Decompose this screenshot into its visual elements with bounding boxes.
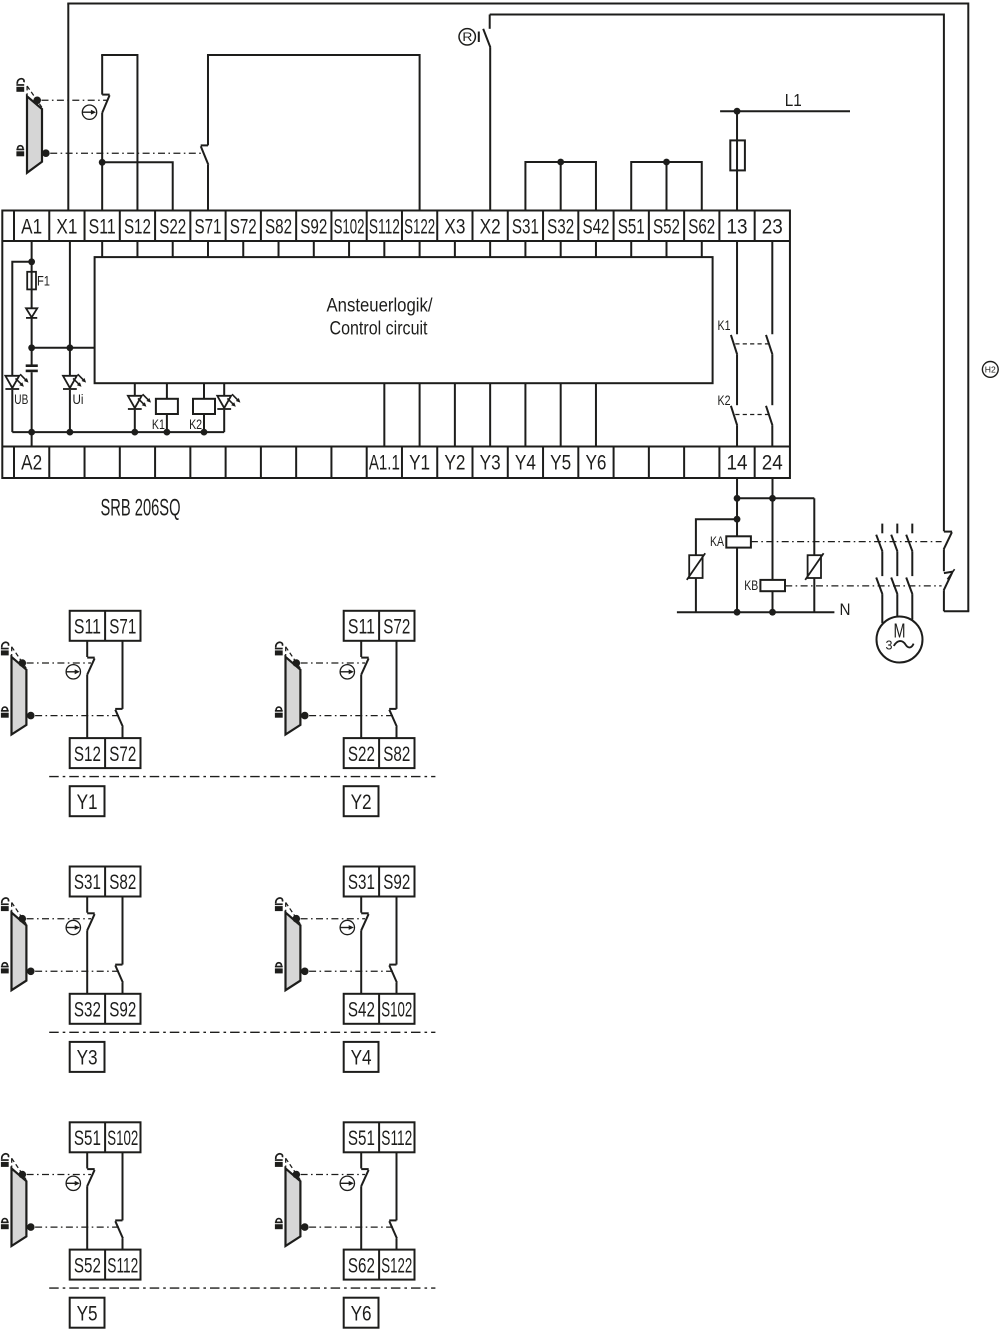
svg-text:S102: S102 xyxy=(381,999,412,1022)
Y4 padlock open icon xyxy=(275,898,283,911)
svg-text:S92: S92 xyxy=(300,216,327,239)
Y5 wire to S52 xyxy=(86,1186,88,1249)
Y2 sensor terminal box S22/S82 xyxy=(344,738,415,768)
svg-text:S31: S31 xyxy=(348,871,375,894)
Y2 label box xyxy=(344,786,379,816)
Y3 wire to S92 xyxy=(122,983,124,994)
node line A1-X1-control xyxy=(28,344,94,351)
Y3 actuator symbol xyxy=(66,920,80,934)
svg-text:24: 24 xyxy=(762,452,783,475)
Y4 actuator symbol xyxy=(340,920,354,934)
Y5 actuator symbol xyxy=(66,1176,80,1190)
door actuator dot B xyxy=(42,149,50,157)
svg-text:14: 14 xyxy=(727,452,748,475)
svg-text:X3: X3 xyxy=(444,216,465,239)
Y5 guard door panel xyxy=(12,1168,27,1246)
wire top rail xyxy=(67,3,968,5)
wire 24 down xyxy=(772,478,774,580)
Y6 padlock open icon xyxy=(275,1154,283,1167)
label K1 (coil) xyxy=(152,417,165,432)
Y1 wire to S72 xyxy=(122,727,124,738)
Y1 label box xyxy=(70,786,105,816)
Y4 guard door open position (dashed) xyxy=(286,903,301,924)
Y2 door actuator dot B xyxy=(301,712,309,720)
relay coil K1 xyxy=(156,383,178,432)
wire diode to node xyxy=(31,318,33,348)
junction L1 xyxy=(734,108,741,115)
svg-text:Y6: Y6 xyxy=(585,452,606,475)
wire rail to A2 xyxy=(31,432,33,446)
Y5 padlock closed icon xyxy=(1,1219,9,1230)
control circuit box xyxy=(95,257,713,383)
Y6 wire to S122 xyxy=(396,1238,398,1249)
Y1 guard door open position (dashed) xyxy=(12,647,27,668)
reset NO contact lever xyxy=(483,29,490,48)
contactor coil KB xyxy=(760,580,785,612)
contact K2 (23-24) xyxy=(766,406,773,426)
svg-text:X2: X2 xyxy=(480,216,501,239)
contact S11 (door NC) xyxy=(102,95,110,113)
branch varistor right xyxy=(813,498,815,555)
reset button R circle xyxy=(459,29,475,45)
contact K2 (13-14) xyxy=(731,406,737,426)
svg-text:KB: KB xyxy=(744,578,758,593)
svg-text:S72: S72 xyxy=(230,216,257,239)
LED Ui xyxy=(63,348,86,432)
LED UB xyxy=(5,374,28,432)
svg-text:S31: S31 xyxy=(74,871,101,894)
label UB xyxy=(14,392,28,407)
Y5 door actuator dot A xyxy=(19,1171,27,1179)
Y5 contact left (NC) xyxy=(87,1169,95,1186)
svg-text:SRB 206SQ: SRB 206SQ xyxy=(101,495,181,522)
svg-text:UB: UB xyxy=(14,392,28,407)
label N xyxy=(840,601,851,619)
lamp H2 xyxy=(982,362,998,378)
junction S11/S22 xyxy=(99,159,106,166)
wires to motor xyxy=(882,594,912,623)
svg-text:S12: S12 xyxy=(124,216,151,239)
wire between feedback contacts xyxy=(943,549,945,571)
Y5 label box xyxy=(70,1298,105,1328)
terminal labels bottom row (A2 A1.1 Y1-Y6 14 24) xyxy=(21,452,783,475)
Y4 wire to S102 xyxy=(396,983,398,994)
svg-text:S11: S11 xyxy=(348,616,375,639)
svg-text:R: R xyxy=(462,32,472,44)
Y6 contact right (NC) xyxy=(389,1220,397,1238)
stubs control circuit to terminals A1.1,Y1-Y6 xyxy=(384,383,596,446)
Y5 guard door open position (dashed) xyxy=(12,1158,27,1179)
wire X1 riser to top rail xyxy=(67,4,69,211)
wire between contacts 13 xyxy=(736,355,738,406)
Y1 door actuator dot A xyxy=(19,659,27,667)
rail junction dots xyxy=(28,429,207,436)
terminal strip top cells xyxy=(2,211,790,242)
row separator below Y1 xyxy=(49,776,435,778)
label K1 (contacts) xyxy=(718,318,731,333)
Y3 wire S31 down xyxy=(86,897,88,913)
wire X1 down xyxy=(69,241,71,348)
svg-text:S32: S32 xyxy=(74,999,101,1022)
row separator below Y5 xyxy=(49,1287,435,1289)
contactor coil KA xyxy=(726,536,751,612)
Y6 wire S51 down xyxy=(360,1152,362,1168)
node L1 rail xyxy=(720,110,850,112)
Y2 wire S72 down xyxy=(396,641,398,709)
Y4 wire to S42 xyxy=(360,930,362,993)
Y4 door actuator dot B xyxy=(301,968,309,976)
Y5 wire S51 down xyxy=(86,1152,88,1168)
wire feedback to bottom xyxy=(943,590,945,611)
svg-text:X1: X1 xyxy=(56,216,77,239)
wire between contacts 23 xyxy=(771,355,773,406)
Y4 actuation link A xyxy=(301,918,365,920)
Y2 actuator symbol xyxy=(340,665,354,679)
Y3 contact left (NC) xyxy=(87,913,95,930)
padlock closed icon xyxy=(16,146,24,157)
contact KA feedback xyxy=(944,532,952,550)
svg-text:K2: K2 xyxy=(189,417,202,432)
LED K2 indicator xyxy=(217,383,240,432)
svg-text:S102: S102 xyxy=(334,216,365,239)
Y1 contact left (NC) xyxy=(87,658,95,675)
Y4 sensor terminal box S31/S92 xyxy=(344,867,415,897)
Y1 sensor terminal box S11/S71 xyxy=(70,611,141,641)
Y2 contact right (NC) xyxy=(389,709,397,727)
Y3 padlock closed icon xyxy=(1,963,9,974)
junction N a xyxy=(734,609,741,616)
svg-text:Y2: Y2 xyxy=(444,452,465,475)
Y4 actuation link B xyxy=(309,970,393,972)
Y2 guard door open position (dashed) xyxy=(286,647,301,668)
wire terminal 13 down xyxy=(736,241,738,334)
Y2 actuation link A xyxy=(301,662,365,664)
wire right edge (H2 lamp circuit) xyxy=(967,3,969,612)
svg-text:S122: S122 xyxy=(404,216,435,239)
wire reset rail xyxy=(490,15,944,532)
Y2 actuation link B xyxy=(309,715,393,717)
label SRB 206SQ xyxy=(101,495,181,522)
svg-text:Y4: Y4 xyxy=(351,1047,372,1070)
label Ui xyxy=(73,392,84,407)
svg-text:Ui: Ui xyxy=(73,392,84,407)
Y3 guard door panel xyxy=(12,913,27,991)
svg-text:M: M xyxy=(894,621,906,643)
svg-text:S62: S62 xyxy=(348,1254,375,1277)
Y1 actuation link A xyxy=(27,662,91,664)
Y1 wire S11 down xyxy=(86,641,88,657)
wire S71 lower to terminal xyxy=(207,165,209,211)
Y2 guard door panel xyxy=(286,657,301,735)
Y1 actuator symbol xyxy=(66,665,80,679)
wire reset to X2 xyxy=(489,48,491,211)
Y2 wire to S22 xyxy=(360,675,362,738)
svg-text:Y3: Y3 xyxy=(480,452,501,475)
svg-text:S32: S32 xyxy=(547,216,574,239)
internal 0V rail xyxy=(12,431,224,433)
Y2 wire to S82 xyxy=(396,727,398,738)
bridge S51-S52-S62 xyxy=(631,162,702,211)
LED K1 indicator xyxy=(128,383,151,432)
padlock open icon xyxy=(16,79,24,92)
Y6 actuation link A xyxy=(301,1174,365,1176)
motor M 3~ xyxy=(877,617,923,663)
relay body outline xyxy=(2,211,790,479)
bridge S11 to S12 xyxy=(102,55,137,211)
svg-text:S71: S71 xyxy=(194,216,221,239)
svg-text:S92: S92 xyxy=(109,999,136,1022)
terminal labels top row (A1 X1 S11 S12 S22 S71 S72 S82 S92 S102 S112 S122 X3 X2 S31 S32 S42 S51 S52 S62 13 23) xyxy=(21,216,783,239)
Y4 sensor terminal box S42/S102 xyxy=(344,994,415,1024)
Y2 wire S11 down xyxy=(360,641,362,657)
Y1 wire S71 down xyxy=(122,641,124,709)
link KA to contacts xyxy=(751,541,942,543)
wire 14 down xyxy=(736,478,738,536)
Y1 contact right (NC) xyxy=(115,709,123,727)
Y3 contact right (NC) xyxy=(115,965,123,983)
svg-text:Y1: Y1 xyxy=(77,791,98,814)
svg-text:Control circuit: Control circuit xyxy=(330,318,428,340)
Y4 guard door panel xyxy=(286,913,301,991)
Y5 wire to S112 xyxy=(122,1238,124,1249)
Y3 actuation link A xyxy=(27,918,91,920)
Y4 padlock closed icon xyxy=(275,963,283,974)
svg-text:S62: S62 xyxy=(688,216,715,239)
junction 14 a xyxy=(734,495,741,502)
svg-text:23: 23 xyxy=(762,216,783,239)
svg-text:Y1: Y1 xyxy=(409,452,430,475)
wire S71 upper xyxy=(207,55,209,145)
Y3 wire to S32 xyxy=(86,930,88,993)
Y6 actuation link B xyxy=(309,1226,393,1228)
svg-text:A2: A2 xyxy=(21,452,42,475)
svg-text:S112: S112 xyxy=(107,1254,138,1277)
Y6 wire S112 down xyxy=(396,1152,398,1220)
bridge S71 to S122 xyxy=(208,55,420,211)
terminal strip bottom cells xyxy=(2,447,790,479)
label K2 (contacts) xyxy=(718,393,731,408)
svg-text:S82: S82 xyxy=(265,216,292,239)
svg-text:S52: S52 xyxy=(653,216,680,239)
contact K1 (13-14) xyxy=(731,335,737,355)
Y3 door actuator dot A xyxy=(19,915,27,923)
wire S11 upper xyxy=(101,55,103,95)
svg-text:Ansteuerlogik/: Ansteuerlogik/ xyxy=(327,295,433,317)
svg-text:S51: S51 xyxy=(74,1127,101,1150)
Y5 sensor terminal box S51/S102 xyxy=(70,1122,141,1152)
wire terminal 23 down xyxy=(771,241,773,334)
actuation link door to S71 contact xyxy=(50,152,204,154)
contact KB feedback xyxy=(944,569,955,590)
Y6 sensor terminal box S51/S112 xyxy=(344,1122,415,1152)
fuse (line fuse) xyxy=(730,140,745,170)
link K2 contacts xyxy=(735,414,769,416)
Y6 sensor terminal box S62/S122 xyxy=(344,1250,415,1280)
Y6 actuator symbol xyxy=(340,1176,354,1190)
stubs terminals S11..S62 to control circuit xyxy=(102,241,702,257)
varistor left xyxy=(687,553,705,612)
diode xyxy=(26,308,37,318)
svg-text:N: N xyxy=(840,601,851,619)
svg-text:S22: S22 xyxy=(348,743,375,766)
svg-text:A1.1: A1.1 xyxy=(369,452,400,475)
Y6 guard door open position (dashed) xyxy=(286,1158,301,1179)
svg-text:A1: A1 xyxy=(21,216,42,239)
Y6 door actuator dot B xyxy=(301,1223,309,1231)
Y1 sensor terminal box S12/S72 xyxy=(70,738,141,768)
svg-text:S112: S112 xyxy=(381,1127,412,1150)
relay coil K2 xyxy=(193,383,215,432)
guard door open position (dashed) xyxy=(27,86,42,107)
Y4 label box xyxy=(344,1042,379,1072)
branch to UB xyxy=(12,262,31,376)
svg-text:K1: K1 xyxy=(152,417,165,432)
svg-text:S52: S52 xyxy=(74,1254,101,1277)
junction N b xyxy=(769,609,776,616)
Y2 padlock open icon xyxy=(275,642,283,655)
actuation link door to S11 contact xyxy=(42,99,108,101)
junction 14 b xyxy=(734,516,741,523)
contactor KB main contacts (3-phase) xyxy=(876,551,912,594)
label L1 xyxy=(785,90,802,110)
branch varistor left xyxy=(696,519,737,555)
Y4 wire S92 down xyxy=(396,897,398,965)
svg-text:Y5: Y5 xyxy=(77,1302,98,1325)
Y6 door actuator dot A xyxy=(293,1171,301,1179)
svg-text:S51: S51 xyxy=(618,216,645,239)
svg-text:KA: KA xyxy=(710,534,724,549)
svg-text:S31: S31 xyxy=(512,216,539,239)
Y4 contact right (NC) xyxy=(389,965,397,983)
svg-text:S42: S42 xyxy=(582,216,609,239)
svg-text:S92: S92 xyxy=(383,871,410,894)
svg-text:Y6: Y6 xyxy=(351,1302,372,1325)
svg-text:Y4: Y4 xyxy=(515,452,536,475)
Y5 wire S102 down xyxy=(122,1152,124,1220)
svg-text:S82: S82 xyxy=(383,743,410,766)
Y4 wire S31 down xyxy=(360,897,362,913)
Y6 padlock closed icon xyxy=(275,1219,283,1230)
branch S11 to S22 xyxy=(102,162,173,210)
svg-text:S11: S11 xyxy=(89,216,116,239)
svg-text:13: 13 xyxy=(727,216,748,239)
label KA xyxy=(710,534,724,549)
branch 14 to 24 line xyxy=(737,497,814,499)
Y2 padlock closed icon xyxy=(275,707,283,718)
junction S32 xyxy=(557,159,564,166)
wire fuse to terminal 13 xyxy=(736,170,738,210)
node N rail xyxy=(677,611,835,613)
label KB xyxy=(744,578,758,593)
Y3 actuation link B xyxy=(35,970,119,972)
Y6 guard door panel xyxy=(286,1168,301,1246)
svg-text:S122: S122 xyxy=(381,1254,412,1277)
link K1 contacts xyxy=(735,343,769,345)
actuator symbol at S11 contact xyxy=(82,105,96,119)
Y6 label box xyxy=(344,1298,379,1328)
Y5 actuation link A xyxy=(27,1174,91,1176)
wire bottom link of lamp circuit xyxy=(944,610,969,612)
svg-text:S42: S42 xyxy=(348,999,375,1022)
wire to terminal 14 xyxy=(736,426,738,447)
svg-text:L1: L1 xyxy=(785,90,802,110)
contactor KA main contacts (3-phase) xyxy=(876,524,912,552)
Y5 sensor terminal box S52/S112 xyxy=(70,1250,141,1280)
Y5 door actuator dot B xyxy=(27,1223,35,1231)
svg-text:Y3: Y3 xyxy=(77,1047,98,1070)
svg-text:S12: S12 xyxy=(74,743,101,766)
svg-text:H2: H2 xyxy=(985,365,996,375)
Y1 padlock closed icon xyxy=(1,707,9,718)
svg-text:S72: S72 xyxy=(109,743,136,766)
link KB to contacts xyxy=(785,585,941,587)
svg-text:S22: S22 xyxy=(159,216,186,239)
Y3 guard door open position (dashed) xyxy=(12,903,27,924)
svg-text:S102: S102 xyxy=(107,1127,138,1150)
Y3 sensor terminal box S31/S82 xyxy=(70,867,141,897)
label Ansteuerlogik / Control circuit xyxy=(327,295,433,340)
guard door panel xyxy=(27,96,42,173)
Y1 actuation link B xyxy=(35,715,119,717)
svg-text:Y2: Y2 xyxy=(351,791,372,814)
wire L1 to fuse xyxy=(736,111,738,140)
svg-text:S82: S82 xyxy=(109,871,136,894)
svg-text:3: 3 xyxy=(886,638,893,653)
Y1 guard door panel xyxy=(12,657,27,735)
door actuator dot A xyxy=(33,97,41,105)
Y3 label box xyxy=(70,1042,105,1072)
Y6 contact left (NC) xyxy=(361,1169,369,1186)
junction 24 branch xyxy=(769,495,776,502)
svg-text:S11: S11 xyxy=(74,616,101,639)
Y3 wire S82 down xyxy=(122,897,124,965)
Y4 door actuator dot A xyxy=(293,915,301,923)
Y6 wire to S62 xyxy=(360,1186,362,1249)
Y2 contact left (NC) xyxy=(361,658,369,675)
contact S71 (door NC) xyxy=(201,145,209,165)
wire S11 lower to terminal xyxy=(101,113,103,211)
svg-text:K1: K1 xyxy=(718,318,731,333)
row separator below Y3 xyxy=(49,1031,435,1033)
Y3 padlock open icon xyxy=(1,898,9,911)
Y4 contact left (NC) xyxy=(361,913,369,930)
svg-text:F1: F1 xyxy=(37,274,50,289)
Y5 actuation link B xyxy=(35,1226,119,1228)
wire to terminal 24 xyxy=(771,426,773,447)
reset contact actuator bar xyxy=(478,32,480,43)
bridge S31-S32-S42 xyxy=(525,162,596,211)
svg-text:Y5: Y5 xyxy=(550,452,571,475)
Y2 sensor terminal box S11/S72 xyxy=(344,611,415,641)
junction S52 xyxy=(663,159,670,166)
svg-text:S71: S71 xyxy=(109,616,136,639)
capacitor xyxy=(26,348,38,432)
svg-text:S112: S112 xyxy=(369,216,400,239)
Y3 door actuator dot B xyxy=(27,968,35,976)
svg-text:S72: S72 xyxy=(383,616,410,639)
node A1 junction xyxy=(28,258,35,265)
wire reset upper stub xyxy=(489,15,491,29)
svg-text:S51: S51 xyxy=(348,1127,375,1150)
Y3 sensor terminal box S32/S92 xyxy=(70,994,141,1024)
Y1 door actuator dot B xyxy=(27,712,35,720)
varistor right xyxy=(805,553,823,612)
fuse F1 xyxy=(27,262,50,309)
Y5 padlock open icon xyxy=(1,1154,9,1167)
Y5 contact right (NC) xyxy=(115,1220,123,1238)
Y1 wire to S12 xyxy=(86,675,88,738)
label K2 (coil) xyxy=(189,417,202,432)
